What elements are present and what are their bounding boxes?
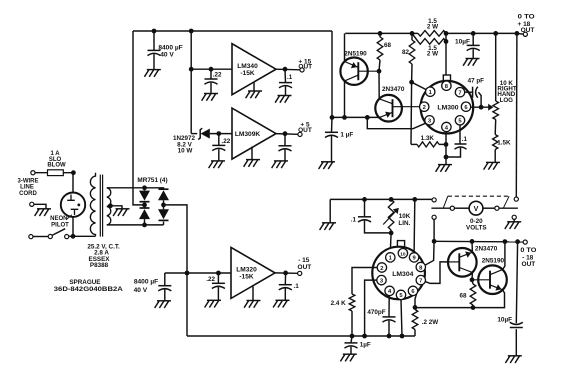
svg-text:LM309K: LM309K: [235, 131, 261, 138]
svg-text:V: V: [474, 204, 479, 213]
svg-text:82: 82: [402, 49, 410, 56]
svg-text:LM320: LM320: [236, 267, 257, 274]
svg-text:.22: .22: [222, 138, 231, 145]
svg-text:0 TO: 0 TO: [520, 247, 536, 254]
svg-text:.2 2W: .2 2W: [422, 319, 439, 326]
svg-text:LIN.: LIN.: [398, 220, 410, 227]
svg-text:-15K: -15K: [240, 70, 255, 77]
svg-text:2N5190: 2N5190: [344, 50, 367, 57]
svg-text:3-WIRE: 3-WIRE: [18, 178, 39, 184]
svg-text:BLOW: BLOW: [47, 162, 66, 168]
svg-text:2N3470: 2N3470: [382, 86, 405, 93]
svg-text:7: 7: [419, 278, 422, 284]
svg-text:OUT: OUT: [298, 63, 312, 70]
svg-text:68: 68: [384, 42, 392, 49]
svg-text:LM340: LM340: [237, 63, 258, 70]
svg-text:10: 10: [400, 252, 406, 258]
svg-text:1 µF: 1 µF: [340, 132, 353, 139]
svg-text:10 W: 10 W: [178, 148, 193, 155]
svg-text:36D-842G040BB2A: 36D-842G040BB2A: [54, 286, 124, 293]
svg-text:0 TO: 0 TO: [518, 14, 535, 21]
svg-text:7: 7: [458, 91, 461, 97]
svg-text:8400 µF: 8400 µF: [158, 44, 182, 51]
svg-text:P8388: P8388: [90, 262, 109, 269]
svg-text:LOG: LOG: [500, 97, 514, 104]
svg-text:CORD: CORD: [19, 191, 37, 197]
svg-text:.1: .1: [294, 283, 300, 290]
svg-text:40 V: 40 V: [134, 287, 148, 294]
svg-text:10µF: 10µF: [497, 316, 512, 323]
svg-text:OUT: OUT: [298, 264, 312, 271]
svg-text:2: 2: [423, 105, 426, 111]
svg-text:SPRAGUE: SPRAGUE: [69, 279, 100, 286]
svg-text:LM300: LM300: [437, 105, 458, 112]
svg-text:470pF: 470pF: [367, 309, 385, 316]
svg-text:-15K: -15K: [239, 274, 254, 281]
svg-text:NEON: NEON: [50, 216, 67, 222]
svg-text:40 V: 40 V: [160, 51, 174, 58]
svg-text:1µF: 1µF: [360, 342, 371, 349]
svg-text:2 W: 2 W: [427, 51, 438, 58]
svg-text:.1: .1: [287, 74, 293, 81]
svg-text:.22: .22: [213, 71, 222, 78]
svg-text:LM304: LM304: [392, 271, 413, 278]
svg-text:68: 68: [459, 292, 467, 299]
svg-text:1.3K: 1.3K: [421, 135, 435, 142]
svg-text:2 W: 2 W: [427, 24, 438, 31]
svg-text:PILOT: PILOT: [51, 223, 69, 229]
svg-text:OUT: OUT: [298, 127, 312, 134]
svg-text:2N3470: 2N3470: [475, 246, 498, 253]
svg-text:LINE: LINE: [20, 185, 34, 191]
svg-text:1.5K: 1.5K: [497, 139, 511, 146]
svg-text:OUT: OUT: [522, 261, 536, 268]
svg-text:VOLTS: VOLTS: [466, 224, 487, 231]
svg-text:.1: .1: [462, 136, 468, 143]
svg-text:47 pF: 47 pF: [468, 77, 485, 84]
svg-text:MR751 (4): MR751 (4): [137, 177, 167, 184]
svg-text:10µF: 10µF: [455, 39, 470, 46]
svg-text:2: 2: [380, 266, 383, 272]
svg-text:.22: .22: [206, 276, 215, 283]
svg-text:2.4 K: 2.4 K: [331, 300, 347, 307]
svg-text:.1: .1: [351, 216, 357, 223]
svg-text:8400 µF: 8400 µF: [134, 279, 158, 286]
svg-text:OUT: OUT: [521, 27, 535, 34]
svg-text:2N5190: 2N5190: [482, 258, 505, 265]
